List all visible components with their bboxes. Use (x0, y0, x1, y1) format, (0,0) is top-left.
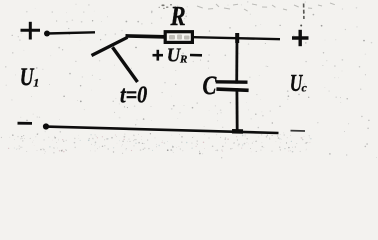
scan mark vertical dash top-right (303, 4, 305, 20)
minus terminal right (-) (291, 130, 306, 132)
minus terminal left (-) (18, 122, 33, 125)
svg-text:U: U (20, 63, 35, 91)
scan specks above R (159, 4, 176, 9)
plus terminal left (+) (21, 22, 41, 40)
wire: node A to right terminal (237, 38, 280, 39)
capacitor C bottom lead wire (235, 88, 238, 132)
node B junction (bottom of capacitor) (232, 129, 243, 134)
scan smudges top-right (197, 3, 335, 11)
node: bottom-left terminal dot (43, 123, 49, 129)
label +UR- : minus sign (190, 54, 202, 57)
label +UR- : plus sign (153, 50, 164, 61)
capacitor C top lead wire (235, 38, 238, 83)
wire: resistor to node A (194, 37, 237, 38)
node A junction (top of capacitor) (235, 33, 239, 43)
wire: top-left terminal to switch (47, 32, 95, 33)
plus terminal right (+) (292, 30, 309, 46)
wire: switch to resistor (126, 36, 166, 37)
resistor R (box) (165, 32, 192, 43)
switch S (blade) (92, 37, 128, 55)
switch actuation pointer (t=0 arrow line) (113, 47, 138, 82)
svg-text:1: 1 (33, 75, 39, 89)
capacitor C bottom plate (216, 89, 248, 90)
svg-text:R: R (170, 2, 186, 31)
noise (1, 1, 377, 158)
svg-text:c: c (302, 81, 308, 95)
svg-text:t=0: t=0 (120, 81, 147, 108)
svg-text:C: C (203, 72, 217, 101)
scan noise band bottom (8, 134, 312, 153)
capacitor C top plate (216, 80, 248, 84)
node: top-left terminal dot (44, 31, 50, 37)
smudge inside resistor (169, 35, 190, 40)
wire: bottom return wire (46, 127, 279, 133)
svg-text:R: R (179, 54, 187, 66)
